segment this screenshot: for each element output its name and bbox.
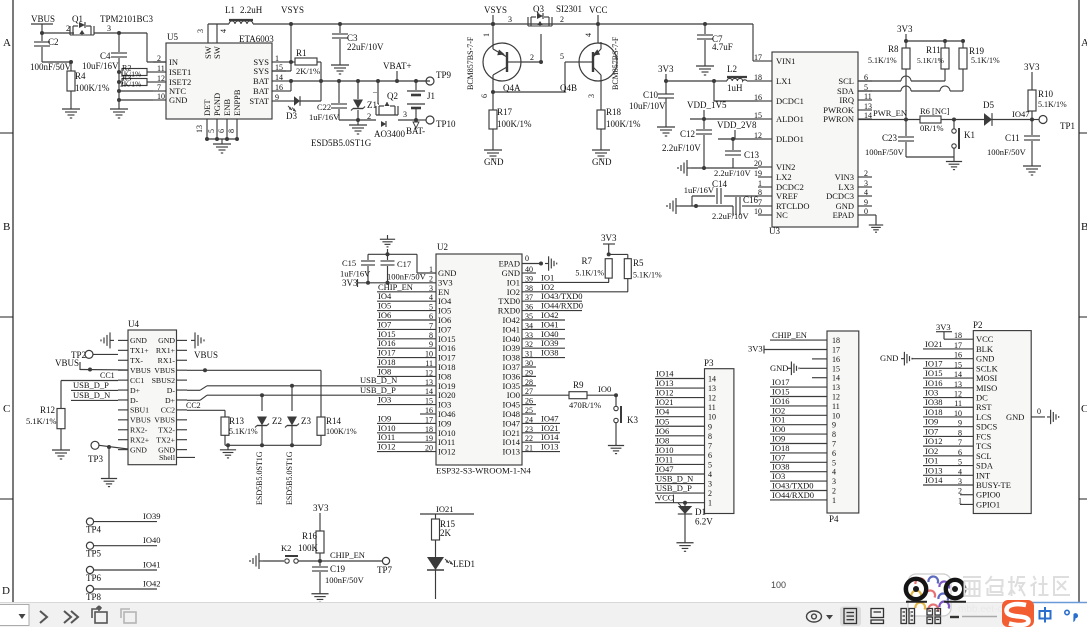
svg-text:12: 12 (708, 394, 716, 403)
svg-text:TP9: TP9 (436, 70, 452, 80)
svg-text:11: 11 (708, 403, 716, 412)
svg-text:2K: 2K (440, 528, 452, 538)
svg-text:INT: INT (976, 470, 991, 480)
svg-text:16: 16 (832, 355, 840, 364)
svg-text:D-: D- (130, 396, 139, 405)
svg-text:10: 10 (832, 411, 840, 420)
svg-text:IO38: IO38 (541, 348, 558, 358)
svg-text:C15: C15 (342, 258, 356, 268)
svg-text:R8: R8 (888, 44, 899, 54)
svg-text:1: 1 (758, 179, 762, 188)
svg-text:A: A (3, 37, 11, 49)
svg-text:ENPPB: ENPPB (232, 89, 242, 116)
svg-text:IO10: IO10 (656, 445, 673, 455)
svg-text:IO12: IO12 (438, 447, 455, 457)
svg-text:IO7: IO7 (925, 426, 938, 436)
svg-text:R10: R10 (1038, 89, 1054, 99)
svg-text:R11: R11 (926, 45, 941, 55)
svg-text:2: 2 (832, 487, 836, 496)
svg-text:R1: R1 (296, 48, 307, 58)
svg-text:TP8: TP8 (86, 592, 102, 602)
svg-text:4: 4 (832, 468, 836, 477)
svg-text:R9: R9 (573, 380, 584, 390)
svg-text:12: 12 (157, 74, 165, 83)
svg-text:D1: D1 (695, 507, 706, 517)
svg-text:K3: K3 (627, 415, 638, 425)
svg-text:C14: C14 (712, 179, 728, 189)
svg-text:100: 100 (771, 580, 786, 590)
svg-text:R6 [NC]: R6 [NC] (920, 106, 950, 116)
svg-text:5.1K/1%: 5.1K/1% (229, 427, 258, 436)
svg-text:R18: R18 (606, 107, 622, 117)
svg-text:IO14: IO14 (656, 369, 674, 379)
svg-text:R4: R4 (75, 71, 86, 81)
svg-text:IO0: IO0 (598, 384, 611, 394)
svg-text:TX-: TX- (130, 356, 143, 365)
svg-text:100K/1%: 100K/1% (606, 119, 641, 129)
svg-text:SDCS: SDCS (976, 422, 998, 432)
svg-text:VSYS: VSYS (484, 5, 507, 15)
svg-text:IO2: IO2 (925, 446, 938, 456)
svg-text:IO9: IO9 (925, 417, 938, 427)
svg-text:11: 11 (832, 402, 840, 411)
svg-text:ESD5B5.0ST1G: ESD5B5.0ST1G (285, 451, 294, 505)
svg-text:C16: C16 (743, 195, 759, 205)
svg-text:13: 13 (832, 383, 840, 392)
svg-text:RX2+: RX2+ (130, 436, 150, 445)
svg-text:VBUS: VBUS (130, 416, 151, 425)
svg-text:IO6: IO6 (656, 426, 669, 436)
svg-text:5: 5 (832, 458, 836, 467)
svg-text:RX1+: RX1+ (156, 346, 176, 355)
svg-text:Shell: Shell (159, 453, 176, 462)
svg-text:5.1K/1%: 5.1K/1% (971, 56, 1000, 65)
svg-text:MOSI: MOSI (976, 373, 997, 383)
svg-text:2: 2 (708, 489, 712, 498)
svg-text:LX2: LX2 (776, 172, 792, 182)
svg-text:11: 11 (157, 64, 165, 73)
svg-text:Q2: Q2 (387, 91, 398, 101)
svg-text:VBUS: VBUS (154, 366, 175, 375)
svg-text:3V3: 3V3 (748, 344, 763, 354)
svg-text:ENB: ENB (222, 99, 232, 116)
svg-text:470R/1%: 470R/1% (569, 400, 601, 410)
svg-text:13: 13 (864, 102, 872, 111)
svg-text:IO12: IO12 (378, 442, 395, 452)
svg-text:TP10: TP10 (436, 119, 456, 129)
svg-text:VIN3: VIN3 (835, 172, 854, 182)
svg-text:IN: IN (169, 57, 178, 67)
svg-text:GND: GND (1006, 412, 1024, 422)
svg-text:DC: DC (976, 393, 988, 403)
svg-text:C: C (1081, 403, 1087, 415)
svg-text:C19: C19 (330, 564, 346, 574)
svg-text:K2: K2 (281, 543, 291, 553)
svg-text:100nF/50V: 100nF/50V (30, 62, 72, 72)
svg-text:R14: R14 (326, 416, 342, 426)
svg-text:22uF/10V: 22uF/10V (347, 42, 384, 52)
svg-text:IO40: IO40 (143, 535, 160, 545)
svg-text:GND: GND (976, 354, 994, 364)
svg-text:4: 4 (584, 33, 593, 37)
svg-text:IO15: IO15 (925, 368, 942, 378)
svg-text:VBUS: VBUS (154, 416, 175, 425)
svg-text:3: 3 (107, 24, 111, 33)
svg-text:0: 0 (525, 254, 529, 263)
svg-text:14: 14 (832, 374, 840, 383)
svg-text:TP3: TP3 (88, 454, 104, 464)
svg-text:100nF/50V: 100nF/50V (865, 147, 905, 157)
svg-text:IO21: IO21 (925, 339, 942, 349)
svg-text:4: 4 (708, 470, 712, 479)
svg-text:12: 12 (754, 131, 762, 140)
svg-text:3V3: 3V3 (897, 24, 913, 34)
svg-text:4.7uF: 4.7uF (712, 42, 733, 52)
svg-text:DCDC1: DCDC1 (776, 96, 804, 106)
svg-text:ETA6003: ETA6003 (239, 34, 274, 44)
svg-text:R19: R19 (969, 46, 985, 56)
svg-text:CC1: CC1 (130, 376, 144, 385)
svg-text:TX2+: TX2+ (156, 436, 175, 445)
svg-text:SDA: SDA (976, 461, 994, 471)
svg-text:R7: R7 (581, 256, 592, 266)
svg-text:2: 2 (864, 169, 868, 178)
svg-text:A: A (1081, 37, 1087, 49)
svg-text:GND: GND (130, 336, 147, 345)
svg-text:CC2: CC2 (161, 406, 175, 415)
svg-text:P4: P4 (829, 514, 839, 524)
svg-text:PGND: PGND (212, 93, 222, 116)
svg-text:DLDO1: DLDO1 (776, 134, 804, 144)
svg-text:2: 2 (560, 15, 564, 24)
svg-text:IO21: IO21 (656, 397, 673, 407)
svg-text:17: 17 (832, 346, 840, 355)
svg-text:NC: NC (776, 210, 788, 220)
svg-text:14: 14 (425, 387, 433, 396)
svg-text:15: 15 (832, 364, 840, 373)
svg-text:SYS: SYS (253, 66, 269, 76)
svg-text:TP7: TP7 (377, 565, 393, 575)
svg-text:6.2V: 6.2V (695, 517, 713, 527)
svg-text:Q1: Q1 (72, 14, 83, 24)
svg-text:10: 10 (754, 207, 762, 216)
svg-text:Q4A: Q4A (503, 83, 521, 93)
svg-text:IO11: IO11 (656, 454, 673, 464)
svg-text:2.2uF/10V: 2.2uF/10V (714, 168, 751, 178)
svg-text:IO12: IO12 (925, 436, 942, 446)
svg-text:TX2-: TX2- (158, 426, 175, 435)
svg-text:13: 13 (708, 384, 716, 393)
svg-text:IO8: IO8 (378, 366, 391, 376)
svg-text:USB_D_N: USB_D_N (73, 390, 110, 400)
svg-text:AO3400: AO3400 (374, 129, 405, 139)
svg-text:SCL: SCL (976, 451, 992, 461)
svg-text:D-: D- (167, 386, 176, 395)
svg-text:18: 18 (832, 336, 840, 345)
svg-text:U5: U5 (167, 32, 178, 42)
svg-text:VDD_1V5: VDD_1V5 (687, 100, 727, 110)
svg-text:5: 5 (207, 129, 216, 133)
svg-text:MISO: MISO (976, 383, 997, 393)
svg-text:1: 1 (708, 499, 712, 508)
svg-text:3: 3 (196, 29, 205, 33)
svg-text:5.1K/1%: 5.1K/1% (26, 416, 56, 426)
svg-text:4: 4 (864, 188, 868, 197)
svg-text:17: 17 (754, 53, 762, 62)
svg-text:3: 3 (508, 15, 512, 24)
svg-text:GPIO1: GPIO1 (976, 499, 1000, 509)
svg-text:Q4B: Q4B (560, 83, 577, 93)
svg-text:8: 8 (832, 430, 836, 439)
svg-text:VDD_2V8: VDD_2V8 (717, 120, 757, 130)
svg-text:D+: D+ (165, 396, 176, 405)
svg-text:SI2301: SI2301 (556, 4, 582, 14)
svg-text:LCS: LCS (976, 412, 992, 422)
svg-text:2K/1%: 2K/1% (120, 80, 141, 89)
svg-text:13: 13 (425, 378, 433, 387)
svg-text:6: 6 (708, 451, 712, 460)
svg-text:TX1+: TX1+ (130, 346, 149, 355)
svg-text:IO13: IO13 (925, 465, 942, 475)
svg-text:C: C (3, 403, 10, 415)
svg-text:3V3: 3V3 (342, 278, 358, 288)
svg-text:VCC: VCC (656, 493, 674, 503)
svg-text:GND: GND (158, 336, 175, 345)
svg-text:LED1: LED1 (453, 559, 475, 569)
svg-text:R16: R16 (302, 531, 318, 541)
svg-text:USB_D_P: USB_D_P (360, 385, 396, 395)
svg-text:1uH: 1uH (727, 83, 743, 93)
svg-text:7: 7 (157, 83, 161, 92)
svg-text:R17: R17 (497, 107, 513, 117)
svg-text:C2: C2 (48, 37, 59, 47)
svg-text:D3: D3 (286, 111, 297, 121)
svg-text:6: 6 (480, 94, 489, 98)
svg-text:8: 8 (227, 129, 236, 133)
svg-text:GND: GND (484, 157, 504, 167)
svg-text:9: 9 (832, 421, 836, 430)
svg-text:BCM857BS-7-F: BCM857BS-7-F (466, 36, 475, 90)
svg-text:IO12: IO12 (656, 388, 673, 398)
svg-text:100K/1%: 100K/1% (497, 119, 532, 129)
svg-text:IO13: IO13 (503, 447, 520, 457)
svg-text:TP1: TP1 (1060, 121, 1075, 131)
svg-text:1uF/16V: 1uF/16V (684, 185, 715, 195)
svg-text:8: 8 (758, 188, 762, 197)
svg-text:SCLK: SCLK (976, 363, 999, 373)
svg-text:7: 7 (708, 441, 712, 450)
svg-text:STAT: STAT (249, 96, 269, 106)
svg-text:IO13: IO13 (541, 442, 558, 452)
svg-text:IO8: IO8 (656, 435, 669, 445)
svg-text:Q3: Q3 (533, 4, 544, 14)
svg-text:L1: L1 (225, 5, 235, 15)
svg-text:L2: L2 (727, 64, 737, 74)
svg-text:SW: SW (212, 46, 222, 59)
svg-text:J1: J1 (427, 91, 435, 101)
svg-text:2.2uF/10V: 2.2uF/10V (662, 143, 701, 153)
svg-text:1: 1 (832, 496, 836, 505)
svg-text:GPIO0: GPIO0 (976, 490, 1000, 500)
svg-text:ESP32-S3-WROOM-1-N4: ESP32-S3-WROOM-1-N4 (436, 466, 531, 476)
svg-text:1uF/16V: 1uF/16V (309, 112, 340, 122)
svg-text:13: 13 (195, 125, 204, 133)
svg-text:C11: C11 (1005, 133, 1020, 143)
svg-text:5: 5 (708, 460, 712, 469)
svg-text:0: 0 (1037, 407, 1041, 416)
svg-text:3V3: 3V3 (1024, 62, 1040, 72)
svg-text:K1: K1 (964, 130, 975, 140)
svg-text:9: 9 (708, 422, 712, 431)
svg-text:VBUS: VBUS (130, 366, 151, 375)
svg-text:14: 14 (864, 111, 872, 120)
svg-text:IO13: IO13 (656, 378, 673, 388)
svg-text:1: 1 (275, 54, 279, 63)
svg-text:USB_D_P: USB_D_P (73, 380, 109, 390)
svg-text:SBU1: SBU1 (130, 406, 149, 415)
svg-text:RST: RST (976, 402, 992, 412)
svg-text:C10: C10 (643, 90, 659, 100)
svg-text:mbb.eet-c: mbb.eet-c (958, 604, 1002, 615)
svg-text:BLK: BLK (976, 344, 994, 354)
svg-text:VIN2: VIN2 (776, 162, 795, 172)
svg-text:DCDC3: DCDC3 (826, 191, 854, 201)
svg-text:C23: C23 (882, 133, 898, 143)
svg-text:PWR_EN: PWR_EN (873, 108, 907, 118)
svg-text:IO38: IO38 (925, 397, 942, 407)
svg-text:PWRON: PWRON (823, 114, 854, 124)
svg-text:5.1K/1%: 5.1K/1% (917, 56, 944, 65)
svg-text:16: 16 (754, 93, 762, 102)
svg-text:6: 6 (832, 449, 836, 458)
svg-text:D5: D5 (983, 100, 994, 110)
svg-text:15: 15 (754, 111, 762, 120)
svg-text:11: 11 (864, 92, 872, 101)
svg-text:14: 14 (708, 375, 716, 384)
svg-text:GND: GND (130, 445, 147, 454)
svg-text:ISET1: ISET1 (169, 67, 191, 77)
svg-text:2: 2 (66, 24, 70, 33)
svg-text:100nF/50V: 100nF/50V (325, 575, 365, 585)
svg-text:14: 14 (275, 73, 283, 82)
svg-text:ESD5B5.0ST1G: ESD5B5.0ST1G (311, 138, 372, 148)
svg-text:R5: R5 (633, 258, 644, 268)
svg-text:EPAD: EPAD (833, 210, 854, 220)
svg-text:LX1: LX1 (776, 76, 792, 86)
svg-text:U2: U2 (437, 242, 448, 252)
svg-text:IO3: IO3 (925, 388, 938, 398)
svg-text:5.1K/1%: 5.1K/1% (1038, 100, 1067, 109)
svg-text:VREF: VREF (776, 191, 798, 201)
svg-text:SBUS2: SBUS2 (152, 376, 176, 385)
svg-text:IO14: IO14 (925, 475, 943, 485)
svg-text:Z3: Z3 (301, 416, 311, 426)
svg-text:5.1K/1%: 5.1K/1% (575, 269, 604, 278)
svg-text:5.1K/1%: 5.1K/1% (633, 271, 662, 280)
svg-text:IO47: IO47 (656, 464, 673, 474)
svg-text:BAT: BAT (253, 76, 270, 86)
svg-text:16: 16 (275, 83, 283, 92)
svg-text:IO41: IO41 (143, 560, 160, 570)
svg-text:0: 0 (864, 207, 868, 216)
svg-text:RX2-: RX2- (130, 426, 148, 435)
svg-text:5.1K/1%: 5.1K/1% (868, 56, 897, 65)
svg-text:GND: GND (169, 95, 187, 105)
svg-text:ESD5B5.0ST1G: ESD5B5.0ST1G (255, 451, 264, 505)
svg-text:P3: P3 (704, 358, 714, 368)
svg-text:R12: R12 (40, 405, 55, 415)
svg-text:6: 6 (217, 129, 226, 133)
svg-text:SCL: SCL (838, 76, 854, 86)
svg-text:IO16: IO16 (925, 378, 942, 388)
svg-text:3V3: 3V3 (936, 322, 951, 332)
svg-text:CC2: CC2 (186, 401, 201, 410)
svg-text:BUSY-TE: BUSY-TE (976, 480, 1011, 490)
svg-text:10uF/10V: 10uF/10V (629, 101, 666, 111)
svg-text:P2: P2 (973, 320, 983, 330)
svg-text:DET: DET (202, 99, 212, 116)
svg-text:IO18: IO18 (925, 407, 942, 417)
svg-text:IO42: IO42 (143, 579, 160, 589)
svg-text:9: 9 (864, 198, 868, 207)
svg-text:IO17: IO17 (925, 358, 942, 368)
svg-text:18: 18 (754, 73, 762, 82)
svg-text:GND: GND (770, 363, 788, 373)
svg-text:7: 7 (758, 198, 762, 207)
svg-text:3V3: 3V3 (658, 64, 674, 74)
svg-text:5: 5 (560, 52, 564, 61)
svg-text:VBAT+: VBAT+ (383, 61, 412, 71)
svg-text:Z2: Z2 (272, 416, 282, 426)
svg-text:3: 3 (864, 179, 868, 188)
svg-text:ALDO1: ALDO1 (776, 114, 804, 124)
svg-text:IO3: IO3 (378, 395, 391, 405)
svg-text:IO44/RXD0: IO44/RXD0 (772, 490, 814, 500)
svg-text:3: 3 (708, 480, 712, 489)
svg-text:U3: U3 (769, 226, 780, 236)
svg-text:0R/1%: 0R/1% (920, 123, 944, 133)
svg-text:B: B (3, 221, 10, 233)
svg-text:USB_D_P: USB_D_P (656, 483, 692, 493)
svg-text:3: 3 (832, 477, 836, 486)
svg-text:B: B (1081, 221, 1087, 233)
svg-text:2.2uF/10V: 2.2uF/10V (712, 211, 749, 221)
svg-text:VIN1: VIN1 (776, 56, 795, 66)
svg-text:EPAD: EPAD (499, 259, 520, 269)
svg-text:C17: C17 (397, 259, 411, 269)
svg-text:100K/1%: 100K/1% (326, 427, 357, 436)
svg-text:8: 8 (708, 432, 712, 441)
svg-text:4: 4 (219, 29, 228, 33)
svg-text:2: 2 (530, 53, 534, 62)
svg-text:D+: D+ (130, 386, 141, 395)
svg-text:TP4: TP4 (86, 525, 102, 535)
svg-text:19: 19 (754, 169, 762, 178)
svg-text:VSYS: VSYS (281, 5, 304, 15)
svg-text:1: 1 (482, 33, 491, 37)
svg-text:VBUS: VBUS (31, 14, 55, 24)
svg-text:2: 2 (157, 54, 161, 63)
svg-text:VBUS: VBUS (55, 358, 79, 368)
svg-text:FCS: FCS (976, 431, 991, 441)
svg-text:IO4: IO4 (656, 407, 670, 417)
svg-text:CHIP_EN: CHIP_EN (330, 550, 365, 560)
svg-text:12: 12 (832, 393, 840, 402)
svg-text:1uF/16V: 1uF/16V (340, 269, 371, 279)
svg-text:BAT: BAT (253, 86, 270, 96)
svg-text:C22: C22 (317, 102, 331, 112)
svg-text:RX1-: RX1- (158, 356, 176, 365)
